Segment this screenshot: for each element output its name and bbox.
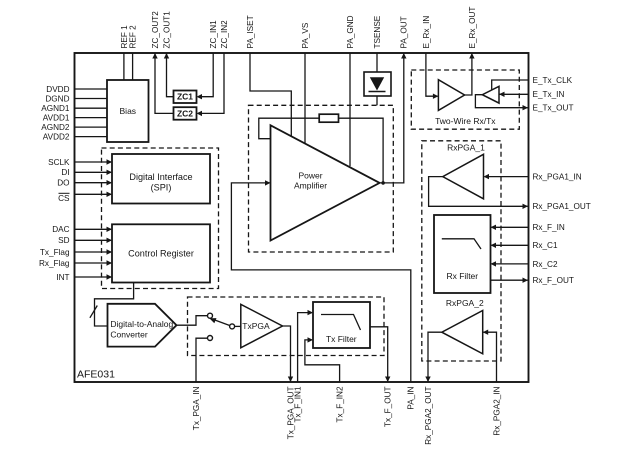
arrow E_Tx_IN left bbox=[499, 92, 505, 97]
wire PA_VS bbox=[304, 53, 306, 143]
arrow Rx_PGA2_OUT down bbox=[425, 377, 430, 383]
svg-text:TxPGA: TxPGA bbox=[242, 321, 270, 331]
svg-text:DGND: DGND bbox=[45, 94, 69, 103]
op-amp TxPGA bbox=[241, 304, 283, 348]
dashed box Tx section bbox=[188, 297, 385, 356]
wire ZC_IN1 bbox=[198, 53, 213, 97]
svg-text:Rx_PGA1_IN: Rx_PGA1_IN bbox=[533, 173, 582, 182]
arrow ZC_IN1 left bbox=[197, 94, 203, 99]
svg-text:Rx_F_IN: Rx_F_IN bbox=[533, 223, 565, 232]
svg-text:Digital Interface: Digital Interface bbox=[129, 172, 192, 182]
wire Rx_PGA2_OUT bbox=[428, 332, 442, 381]
wire Tx_PGA_IN to lower throw bbox=[196, 338, 208, 382]
block Bias bbox=[107, 80, 149, 142]
arrow SCLK right bbox=[107, 159, 113, 164]
svg-text:DI: DI bbox=[61, 168, 69, 177]
svg-text:AVDD2: AVDD2 bbox=[43, 133, 70, 142]
buffer E_Tx (triangle, points left) bbox=[482, 86, 499, 103]
svg-text:Tx_Flag: Tx_Flag bbox=[40, 248, 70, 257]
wire DGND bbox=[75, 98, 108, 100]
block Tx Filter bbox=[313, 302, 370, 348]
dashed box Two-Wire Rx/Tx bbox=[411, 70, 519, 129]
svg-text:Two-Wire Rx/Tx: Two-Wire Rx/Tx bbox=[435, 116, 496, 126]
svg-text:Digital-to-Analog: Digital-to-Analog bbox=[110, 319, 173, 329]
svg-text:Tx_PGA_IN: Tx_PGA_IN bbox=[192, 386, 201, 430]
arrow E_Rx_IN right bbox=[433, 94, 439, 99]
arrow Tx_PGA_OUT down bbox=[288, 377, 293, 383]
overline for CS bbox=[59, 192, 70, 194]
wire AGND2 bbox=[75, 126, 108, 128]
wire Rx_C2 bbox=[492, 263, 529, 265]
wire SD bbox=[75, 239, 112, 241]
arrow E_Tx_OUT right bbox=[523, 105, 529, 110]
wire AVDD2 bbox=[75, 136, 108, 138]
wire SCLK bbox=[75, 161, 112, 163]
svg-text:Rx_PGA2_IN: Rx_PGA2_IN bbox=[492, 386, 501, 435]
switch upper throw terminal bbox=[208, 313, 213, 318]
temperature sensor diode box bbox=[364, 72, 391, 96]
svg-text:E_Tx_OUT: E_Tx_OUT bbox=[533, 104, 574, 113]
arrow Rx_PGA1_IN left bbox=[484, 174, 490, 179]
op-amp RxPGA_2 (points left) bbox=[442, 311, 483, 354]
block Digital-to-Analog Converter (pentagon) bbox=[108, 304, 177, 347]
svg-text:Tx_F_IN1: Tx_F_IN1 bbox=[294, 386, 303, 422]
op-amp RxPGA_1 (points left) bbox=[443, 154, 484, 199]
wire DVDD bbox=[75, 88, 108, 90]
svg-text:Converter: Converter bbox=[110, 329, 147, 339]
switch lower throw terminal bbox=[208, 336, 213, 341]
arrow SD right bbox=[107, 238, 113, 243]
svg-text:ZC2: ZC2 bbox=[177, 108, 193, 118]
svg-text:REF 1: REF 1 bbox=[120, 25, 129, 49]
arrow ZC_IN2 left bbox=[197, 111, 203, 116]
svg-text:INT: INT bbox=[56, 273, 69, 282]
svg-text:AGND2: AGND2 bbox=[41, 123, 70, 132]
arrow ZC_OUT1 up bbox=[164, 53, 169, 59]
svg-text:RxPGA_2: RxPGA_2 bbox=[446, 298, 484, 308]
svg-text:Bias: Bias bbox=[120, 106, 137, 116]
svg-text:AVDD1: AVDD1 bbox=[43, 114, 70, 123]
svg-text:Tx_F_IN2: Tx_F_IN2 bbox=[336, 386, 345, 422]
svg-text:Rx Filter: Rx Filter bbox=[446, 271, 478, 281]
arrow PA_OUT up bbox=[401, 53, 406, 59]
svg-text:TSENSE: TSENSE bbox=[373, 15, 382, 48]
svg-text:RxPGA_1: RxPGA_1 bbox=[447, 142, 485, 152]
svg-text:DVDD: DVDD bbox=[46, 85, 69, 94]
wire ZC_OUT2 from ZC2 to top pin bbox=[155, 53, 174, 113]
svg-text:AFE031: AFE031 bbox=[77, 369, 115, 381]
svg-text:Rx_C2: Rx_C2 bbox=[533, 260, 558, 269]
svg-text:AGND1: AGND1 bbox=[41, 104, 70, 113]
wire Rx_PGA2_IN bbox=[484, 332, 497, 382]
wire DAC output to switch upper throw bbox=[177, 316, 208, 326]
dashed box Power Amplifier section bbox=[249, 105, 394, 252]
arrow Rx_Flag right bbox=[107, 260, 113, 265]
svg-text:Amplifier: Amplifier bbox=[294, 181, 327, 191]
wire E_Tx_CLK bbox=[492, 80, 529, 90]
wire DO bbox=[75, 182, 112, 184]
arrow E_Rx_OUT up bbox=[469, 53, 474, 59]
dashed box SPI section bbox=[102, 148, 219, 289]
svg-text:CS: CS bbox=[58, 194, 70, 203]
block Rx Filter bbox=[434, 215, 491, 293]
wire AGND1 bbox=[75, 107, 108, 109]
svg-text:Rx_PGA2_OUT: Rx_PGA2_OUT bbox=[424, 387, 433, 445]
wire Rx_F_IN bbox=[492, 226, 529, 228]
arrow ZC_OUT2 up bbox=[152, 53, 157, 59]
chip boundary AFE031 bbox=[75, 53, 529, 382]
svg-text:PA_OUT: PA_OUT bbox=[400, 16, 409, 48]
arrow Tx_F_OUT down bbox=[385, 377, 390, 383]
arrow Rx_PGA2_IN left bbox=[483, 330, 489, 335]
wire REF1 bbox=[123, 53, 125, 80]
svg-text:DAC: DAC bbox=[52, 225, 69, 234]
svg-text:Rx_F_OUT: Rx_F_OUT bbox=[533, 276, 574, 285]
buffer E_Rx (triangle) bbox=[438, 80, 464, 111]
wire PA_GND bbox=[349, 53, 351, 166]
block Digital Interface (SPI) bbox=[112, 154, 210, 204]
wire ZC_OUT1 from ZC1 to top pin bbox=[167, 53, 174, 97]
junction node PA output bbox=[381, 181, 385, 185]
wire CS bbox=[75, 193, 112, 195]
wire E_Tx_IN bbox=[500, 93, 529, 95]
svg-text:Tx Filter: Tx Filter bbox=[326, 334, 357, 344]
block ZC1 bbox=[174, 91, 197, 104]
Rx Filter response curve bbox=[442, 239, 481, 249]
svg-text:Rx_PGA1_OUT: Rx_PGA1_OUT bbox=[533, 202, 591, 211]
block Control Register bbox=[112, 224, 210, 282]
svg-text:DO: DO bbox=[57, 179, 69, 188]
wire DAC bbox=[75, 228, 112, 230]
svg-text:PA_ISET: PA_ISET bbox=[246, 15, 255, 48]
svg-text:Control Register: Control Register bbox=[128, 249, 194, 259]
svg-text:ZC_IN2: ZC_IN2 bbox=[220, 20, 229, 49]
arrow DAC right bbox=[107, 227, 113, 232]
wire PA output to PA_OUT pin bbox=[380, 54, 404, 183]
svg-text:E_Rx_IN: E_Rx_IN bbox=[422, 16, 431, 49]
labels bbox=[39, 85, 70, 282]
svg-text:SCLK: SCLK bbox=[48, 158, 70, 167]
wire INT bbox=[75, 276, 112, 278]
arrow Tx_F_IN1 right bbox=[308, 310, 314, 315]
arrow Rx_F_OUT right bbox=[523, 278, 529, 283]
arrow DO right bbox=[107, 180, 113, 185]
svg-text:Rx_C1: Rx_C1 bbox=[533, 241, 558, 250]
wire ZC_IN2 bbox=[198, 53, 224, 113]
svg-text:ZC_IN1: ZC_IN1 bbox=[209, 20, 218, 49]
wire Tx Filter output to Tx_F_OUT pin bbox=[370, 327, 388, 381]
svg-text:ZC1: ZC1 bbox=[177, 92, 193, 102]
svg-text:Tx_F_OUT: Tx_F_OUT bbox=[384, 387, 393, 428]
dashed box Rx section bbox=[422, 141, 501, 361]
arrow Rx_F_IN left bbox=[491, 225, 497, 230]
svg-text:PA_VS: PA_VS bbox=[301, 22, 310, 48]
wire TSENSE lower bbox=[376, 96, 378, 105]
wire E_Rx_OUT bbox=[465, 54, 472, 95]
arrow Rx_C1 left bbox=[491, 243, 497, 248]
wire Rx_C1 bbox=[492, 244, 529, 246]
wire E_Rx_IN bbox=[426, 53, 438, 96]
svg-text:E_Rx_OUT: E_Rx_OUT bbox=[468, 7, 477, 49]
wire Control Register to DAC (bus) bbox=[95, 283, 134, 327]
bus slash bbox=[90, 306, 97, 318]
block ZC2 bbox=[174, 107, 197, 120]
arrow switch arm bbox=[209, 318, 216, 323]
svg-text:E_Tx_CLK: E_Tx_CLK bbox=[533, 76, 573, 85]
wire REF2 bbox=[132, 53, 134, 80]
wire TSENSE upper bbox=[376, 53, 378, 72]
wire PA_ISET bbox=[250, 53, 291, 136]
arrow Tx_F_IN2 right bbox=[308, 337, 314, 342]
svg-text:PA_GND: PA_GND bbox=[346, 15, 355, 48]
wire Rx_PGA1_IN bbox=[485, 176, 529, 178]
wire Tx_F_IN2 bbox=[305, 340, 340, 382]
diode symbol bbox=[370, 77, 384, 90]
Tx Filter response curve bbox=[321, 315, 361, 331]
switch arm bbox=[215, 320, 230, 326]
wire Tx_Flag bbox=[75, 251, 112, 253]
arrow INT right bbox=[107, 274, 113, 279]
svg-text:ZC_OUT2: ZC_OUT2 bbox=[151, 11, 160, 49]
wire Tx_F_IN1 bbox=[298, 313, 312, 382]
switch common terminal bbox=[230, 324, 235, 329]
arrow PA input right bbox=[265, 180, 271, 185]
op-amp Power Amplifier bbox=[271, 125, 380, 240]
wire E_Tx_OUT bbox=[475, 95, 527, 108]
wire PA feedback with resistor bbox=[259, 118, 383, 183]
wire switch common to TxPGA bbox=[234, 325, 241, 327]
arrow Rx_C2 left bbox=[491, 261, 497, 266]
svg-text:ZC_OUT1: ZC_OUT1 bbox=[162, 11, 171, 49]
wire Rx_PGA1_OUT bbox=[429, 177, 528, 207]
arrow DI right bbox=[107, 170, 113, 175]
svg-text:Rx_Flag: Rx_Flag bbox=[39, 259, 70, 268]
svg-text:Power: Power bbox=[298, 170, 322, 180]
arrow CS right bbox=[107, 192, 113, 197]
svg-text:E_Tx_IN: E_Tx_IN bbox=[533, 90, 565, 99]
wire Rx_Flag bbox=[75, 262, 112, 264]
wire PA_IN input path bbox=[231, 183, 410, 382]
svg-text:PA_IN: PA_IN bbox=[407, 386, 416, 409]
wire DI bbox=[75, 171, 112, 173]
svg-text:REF 2: REF 2 bbox=[129, 25, 138, 49]
wire AVDD1 bbox=[75, 117, 108, 119]
svg-text:SD: SD bbox=[58, 236, 69, 245]
arrowheads bbox=[107, 53, 529, 382]
arrow Tx_Flag right bbox=[107, 249, 113, 254]
svg-text:(SPI): (SPI) bbox=[151, 183, 172, 193]
wire Rx_F_OUT bbox=[491, 279, 528, 281]
resistor in PA feedback bbox=[319, 114, 338, 122]
wire TxPGA output to Tx_PGA_OUT pin bbox=[283, 326, 291, 381]
arrow Rx_PGA1_OUT right bbox=[523, 204, 529, 209]
